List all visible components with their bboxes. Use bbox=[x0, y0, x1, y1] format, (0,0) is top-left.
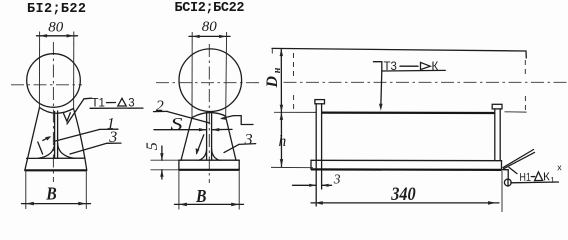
vertical through circle bbox=[507, 179, 509, 186]
svg-text:h: h bbox=[279, 133, 287, 150]
dimension S right line+arrow bbox=[212, 128, 232, 130]
svg-text:3: 3 bbox=[244, 131, 253, 148]
dimension В (middle) line bbox=[175, 203, 244, 205]
h bottom extension line bbox=[271, 166, 313, 168]
dimension S left line+arrow bbox=[154, 129, 206, 131]
leader of 3 (middle) bbox=[224, 144, 239, 152]
weld label Т1-Д3 leader arrow bbox=[67, 99, 84, 124]
dimension В (middle) extension lines bbox=[178, 171, 180, 210]
weld triangle of Т1-Д3 bbox=[118, 98, 126, 106]
dimension В (left) extension lines bbox=[25, 171, 27, 209]
dimension 340 line bbox=[311, 202, 499, 204]
svg-text:БI2;Б22: БI2;Б22 bbox=[27, 2, 86, 17]
base plate bottom line (side view) bbox=[311, 168, 502, 171]
svg-text:В: В bbox=[45, 183, 57, 203]
svg-text:D: D bbox=[264, 76, 281, 89]
circle (pipe cross-section, left) bbox=[27, 54, 81, 108]
vertical centerline (middle figure) bbox=[208, 44, 210, 183]
base plate top line (middle) bbox=[179, 159, 239, 161]
underline of Т3-ДК bbox=[382, 69, 446, 72]
circle of Н1 mark bbox=[504, 179, 511, 186]
dimension 3 right line+arrow bbox=[322, 184, 332, 186]
tick at right end of pipe top bbox=[525, 51, 527, 58]
underline of 1 bbox=[100, 128, 118, 130]
Dн dimension line bbox=[280, 49, 282, 113]
dimension 80 (left) line bbox=[37, 35, 78, 37]
beam top line bbox=[322, 111, 495, 114]
weld label Т3-ДК flag bbox=[373, 62, 381, 71]
pipe right end faint dashes bbox=[524, 60, 526, 76]
horizontal centerline (middle figure) bbox=[156, 82, 260, 84]
svg-text:5: 5 bbox=[144, 142, 161, 150]
svg-text:х: х bbox=[557, 162, 562, 172]
dimension 3 left line+arrow bbox=[293, 184, 317, 186]
svg-text:БСI2;БС22: БСI2;БС22 bbox=[175, 1, 245, 16]
internal weld arrow down (left figure) bbox=[38, 142, 43, 154]
web gusset left bbox=[39, 144, 55, 159]
leader of 3 bbox=[70, 143, 107, 154]
svg-text:В: В bbox=[195, 186, 207, 206]
dimension 340 extension right bbox=[501, 171, 503, 212]
Dн arrows bbox=[280, 49, 283, 57]
h arrows bbox=[280, 112, 283, 120]
dimension 340 arrows bbox=[315, 201, 323, 205]
beam top right extension bbox=[505, 111, 527, 113]
circle (pipe cross-section, middle) bbox=[179, 49, 242, 112]
weld label Т1-Д3 flag bbox=[84, 97, 92, 100]
thickness dim lower arrow bbox=[161, 170, 163, 179]
left slant side (middle) bbox=[181, 118, 192, 161]
base plate right edge bbox=[238, 160, 240, 170]
left slant side bbox=[25, 108, 40, 171]
dash of Т1-Д3 bbox=[107, 102, 116, 104]
extension line right of 80 dim bbox=[73, 32, 75, 109]
base plate left edge bbox=[178, 160, 180, 170]
right post line b bbox=[499, 109, 501, 160]
svg-text:1: 1 bbox=[550, 176, 555, 185]
step from plate corner to circle bbox=[502, 170, 508, 179]
extension line left of 80 dim bbox=[38, 32, 40, 108]
weld triangle of Т3-ДК (points right) bbox=[421, 62, 431, 69]
svg-text:80: 80 bbox=[202, 19, 218, 35]
internal weld arrow up-right (left figure) bbox=[43, 137, 50, 140]
dimension В (left) arrows bbox=[26, 202, 34, 206]
web gussets (middle) bbox=[199, 150, 207, 161]
underline of Т1-Д3 bbox=[90, 107, 143, 109]
dimension 80 (middle) arrows bbox=[192, 35, 200, 38]
base plate top line (side view) bbox=[311, 159, 502, 161]
weld label Н1-ДК1 leader wedge line a bbox=[503, 150, 534, 168]
right post line a bbox=[494, 109, 496, 160]
pipe top line bbox=[272, 48, 526, 51]
internal weld arrow (middle) bbox=[197, 135, 204, 154]
base plate bottom (middle) bbox=[178, 169, 239, 171]
left post line a bbox=[315, 104, 317, 206]
dimension В (middle) arrows bbox=[179, 203, 187, 207]
dimension В (left) line bbox=[22, 203, 91, 205]
underline of Н1-ДК1 bbox=[511, 181, 559, 184]
beam top extension line (left) bbox=[274, 111, 317, 113]
web gusset right bbox=[58, 144, 74, 159]
svg-text:340: 340 bbox=[390, 185, 415, 205]
web lines (left figure) bbox=[54, 112, 56, 159]
svg-text:S: S bbox=[171, 114, 183, 134]
pipe left end faint dashes bbox=[293, 53, 295, 78]
svg-text:3: 3 bbox=[333, 172, 341, 187]
weld label Н1-ДК1 text bbox=[519, 162, 562, 185]
extension lines of 80 (middle) bbox=[191, 32, 193, 118]
weld label Н1-ДК1 leader wedge line b bbox=[504, 152, 535, 168]
saddle top curve (left) bbox=[40, 108, 74, 114]
left post cap bbox=[315, 100, 325, 104]
weld flag (middle, right side) leader with arrow bbox=[222, 116, 234, 119]
underline of 3 bbox=[107, 142, 121, 144]
leader of 2 bbox=[168, 112, 210, 123]
flange top line with fillets (left figure) bbox=[27, 157, 85, 159]
weld flag step (middle) bbox=[233, 116, 253, 125]
h dimension line bbox=[280, 112, 282, 166]
plate thickness dim (rotated 5) extension lines bbox=[151, 159, 179, 161]
svg-text:2: 2 bbox=[156, 98, 164, 115]
base plate left edge (side view) bbox=[310, 160, 312, 169]
leader of Т3-ДК bbox=[381, 71, 382, 108]
long dash of Т3-ДК bbox=[400, 65, 418, 67]
bottom edge (left figure) bbox=[25, 169, 88, 171]
dimension 80 (middle) line bbox=[189, 35, 230, 37]
vertical centerline (left figure) bbox=[52, 42, 54, 182]
right post cap bbox=[492, 104, 502, 109]
dimension 80 (left) arrows bbox=[40, 34, 48, 37]
svg-text:80: 80 bbox=[48, 19, 64, 35]
leader of 1 bbox=[55, 129, 100, 141]
pipe axis centerline bbox=[284, 81, 568, 83]
tick at left end of pipe top bbox=[271, 48, 273, 53]
saddle top curve (middle) bbox=[192, 113, 226, 118]
thickness dim upper arrow bbox=[161, 146, 163, 160]
horizontal centerline (left figure) bbox=[11, 84, 82, 86]
underline of 3 (middle) bbox=[239, 143, 256, 146]
left post line b bbox=[321, 104, 323, 189]
right slant side (middle) bbox=[226, 116, 237, 160]
right slant side bbox=[74, 109, 87, 171]
weld label Н1-ДК1 short leader c bbox=[509, 167, 517, 173]
underline of 2 bbox=[154, 110, 168, 112]
web lines (middle) bbox=[206, 113, 208, 161]
base plate right edge (side view) bbox=[501, 161, 503, 170]
